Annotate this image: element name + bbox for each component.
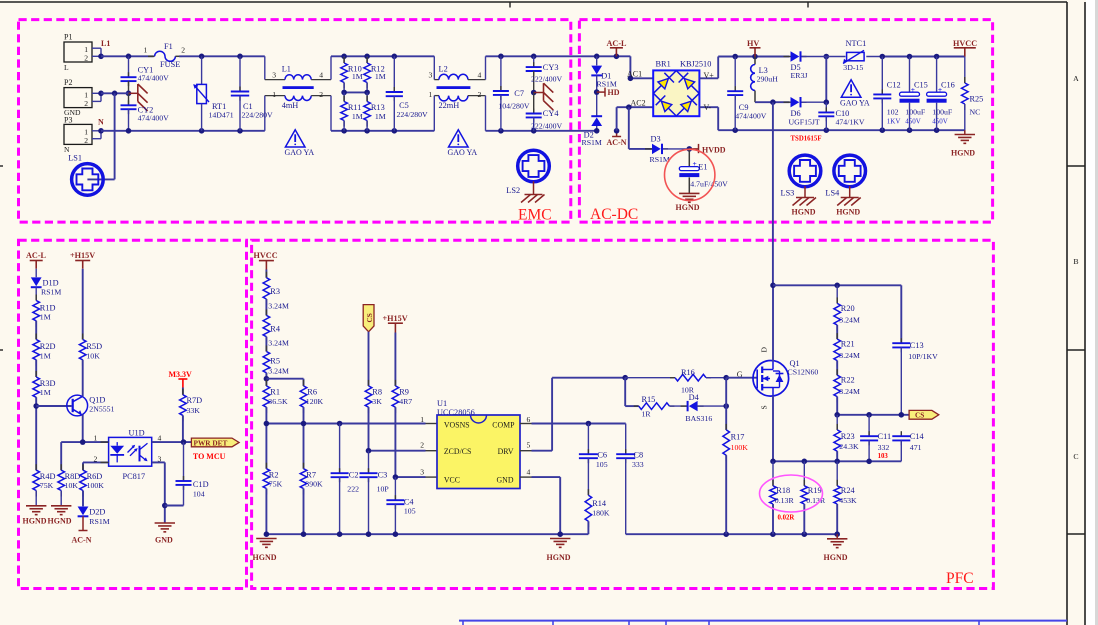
- ground HGND left pfc: [256, 538, 276, 540]
- resistor R5D: [82, 334, 84, 340]
- resistor R18: [772, 461, 774, 486]
- svg-text:HVDD: HVDD: [702, 145, 726, 154]
- svg-text:+H15V: +H15V: [70, 251, 95, 260]
- wire R3D to R4D with base tap: [35, 397, 37, 470]
- svg-text:1: 1: [94, 434, 98, 443]
- resistor R7: [303, 463, 305, 469]
- svg-text:LS3: LS3: [781, 189, 795, 198]
- svg-text:C12: C12: [887, 81, 901, 90]
- svg-text:R7D: R7D: [187, 396, 203, 405]
- svg-text:4: 4: [319, 70, 323, 79]
- junction dots top rail EMC left: [126, 54, 132, 60]
- svg-text:R1D: R1D: [40, 303, 56, 312]
- wire choke L2 to EMC exit top rail: [486, 55, 597, 57]
- svg-text:R13: R13: [371, 103, 385, 112]
- resistor R9: [394, 380, 396, 386]
- capacitor C2: [339, 424, 341, 474]
- capacitor C3: [368, 451, 370, 474]
- MOSFET Q1 CS12N60: [753, 361, 789, 397]
- diode D5: [784, 56, 791, 58]
- svg-text:105: 105: [596, 460, 608, 469]
- svg-text:C4: C4: [404, 497, 415, 506]
- node HVDD: [687, 146, 693, 152]
- svg-text:3: 3: [429, 70, 433, 79]
- svg-text:V-: V-: [704, 103, 712, 112]
- svg-text:1M: 1M: [40, 313, 51, 322]
- resistor R4: [265, 309, 267, 315]
- wire R7D to PWR DET node: [182, 415, 184, 442]
- svg-text:R8: R8: [372, 388, 382, 397]
- bridge diode top-left: [653, 71, 676, 94]
- svg-text:GAO YA: GAO YA: [285, 148, 315, 157]
- wire AC2 branch to D3: [626, 104, 632, 110]
- svg-text:3.24M: 3.24M: [839, 351, 860, 360]
- svg-text:3.24M: 3.24M: [839, 387, 860, 396]
- svg-text:120K: 120K: [306, 397, 324, 406]
- resistor R12: [366, 56, 368, 63]
- svg-text:2: 2: [181, 46, 185, 55]
- svg-text:C6: C6: [597, 450, 607, 459]
- wire bottom rail choke L1 to L2: [331, 130, 434, 132]
- svg-text:B: B: [1073, 257, 1078, 266]
- svg-text:LS1: LS1: [68, 154, 82, 163]
- svg-text:R24: R24: [841, 486, 856, 495]
- resistor R24: [836, 461, 838, 486]
- svg-text:ZCD/CS: ZCD/CS: [444, 447, 471, 456]
- node L1 junction at P1: [98, 54, 104, 60]
- ground HGND under E1: [679, 192, 699, 194]
- svg-text:1: 1: [272, 90, 276, 99]
- ZCD row wire: [369, 450, 426, 452]
- svg-text:HGND: HGND: [836, 207, 860, 216]
- svg-text:105: 105: [404, 506, 416, 515]
- svg-text:1M: 1M: [375, 112, 386, 121]
- svg-text:BAS316: BAS316: [685, 414, 712, 423]
- mounting hole LS2: [518, 150, 550, 182]
- svg-text:LS2: LS2: [506, 186, 520, 195]
- capacitor C15 electrolytic: [909, 57, 911, 93]
- zone divider y=350: [1067, 349, 1085, 351]
- title block divider x=666: [665, 621, 667, 625]
- svg-text:2: 2: [319, 90, 323, 99]
- svg-text:3K: 3K: [372, 397, 382, 406]
- svg-text:1M: 1M: [352, 72, 363, 81]
- svg-text:BR1: BR1: [656, 59, 671, 68]
- svg-text:ER3J: ER3J: [791, 71, 808, 80]
- wire P2 to CY midpoint: [101, 92, 129, 94]
- resistor R15: [634, 405, 639, 407]
- wire pin3 down: [152, 461, 165, 463]
- wire R1D to R2D: [35, 321, 37, 340]
- flag CS vertical: [363, 305, 374, 332]
- chassis earth under LS3: [804, 186, 806, 197]
- diode D2D: [78, 507, 89, 516]
- svg-text:S: S: [760, 405, 769, 409]
- svg-text:222/400V: 222/400V: [531, 121, 563, 130]
- wire pin4 row: [152, 441, 192, 443]
- drain node: [770, 283, 776, 289]
- power port HVCC pfc: [259, 260, 274, 262]
- wire R19 to ground: [803, 504, 805, 534]
- wire V+ to top rail: [699, 77, 718, 79]
- svg-text:450V: 450V: [905, 118, 921, 126]
- flag CS horizontal: [909, 410, 939, 419]
- svg-text:R22: R22: [841, 376, 855, 385]
- GND pin wire: [532, 476, 561, 478]
- svg-text:R23: R23: [841, 432, 855, 441]
- svg-text:3D-15: 3D-15: [843, 63, 863, 72]
- svg-text:224/280V: 224/280V: [397, 110, 429, 119]
- svg-text:C7: C7: [514, 89, 524, 98]
- svg-text:R18: R18: [776, 486, 790, 495]
- resistor R10: [343, 56, 345, 63]
- svg-text:PWR DET: PWR DET: [194, 438, 228, 447]
- ground HGND under R25: [964, 130, 966, 134]
- wire top rail into AC-DC: [597, 55, 631, 57]
- wire CS flag to R8: [368, 332, 370, 386]
- capacitor C7: [500, 56, 502, 91]
- chassis earth under LS2: [533, 181, 535, 194]
- power port HD: [594, 89, 600, 95]
- node R5 bottom: [265, 373, 267, 386]
- resistor R1: [265, 380, 267, 386]
- pin5 stub: [520, 450, 532, 452]
- svg-text:COMP: COMP: [492, 421, 515, 430]
- svg-text:C14: C14: [910, 432, 925, 441]
- wire R4-R5: [265, 337, 267, 352]
- svg-text:3: 3: [272, 70, 276, 79]
- chassis earth at CY3-CY4 junction: [534, 92, 544, 94]
- wire fuse to L1 choke: [179, 55, 265, 57]
- wire to R6 top: [266, 378, 303, 380]
- resistor R4D: [35, 464, 37, 470]
- svg-text:75K: 75K: [269, 480, 283, 489]
- svg-text:100uF: 100uF: [905, 108, 926, 117]
- svg-text:102: 102: [887, 108, 899, 117]
- resistor R1D: [35, 295, 37, 301]
- flag PWR DET: [191, 438, 239, 447]
- capacitor C8: [625, 424, 627, 455]
- resistor R3: [265, 272, 267, 278]
- AC-DC section box: [579, 20, 992, 223]
- warning triangle GAO YA 1: [285, 130, 305, 147]
- svg-text:M3.3V: M3.3V: [169, 370, 193, 379]
- svg-text:1M: 1M: [352, 112, 363, 121]
- svg-text:Q1D: Q1D: [89, 395, 105, 404]
- svg-text:GAO YA: GAO YA: [840, 99, 870, 108]
- svg-text:UCC28056: UCC28056: [437, 408, 475, 417]
- svg-text:V+: V+: [704, 71, 715, 80]
- svg-text:CS: CS: [915, 411, 924, 420]
- svg-text:HGND: HGND: [547, 553, 571, 562]
- capacitor C12: [881, 57, 883, 95]
- resistor R6D: [82, 464, 84, 470]
- wire R20-R21: [836, 325, 838, 339]
- svg-text:103: 103: [878, 453, 889, 460]
- resistor R20: [836, 285, 838, 303]
- power port +H15V: [75, 260, 90, 262]
- svg-text:HGND: HGND: [951, 148, 975, 157]
- svg-text:P1: P1: [64, 33, 72, 42]
- wire +H15V to R5D: [82, 269, 84, 340]
- frame zone tick top x=808: [807, 2, 809, 8]
- wire pin2 row: [83, 461, 109, 463]
- wire NTC1 to HVCC: [882, 56, 965, 58]
- P2 pin stubs: [92, 92, 101, 94]
- resistor R16: [625, 377, 675, 379]
- svg-text:C1D: C1D: [193, 480, 209, 489]
- resistor R21: [836, 333, 838, 339]
- power port AC-L: [610, 47, 623, 49]
- svg-text:PC817: PC817: [123, 472, 146, 481]
- mounting hole LS1: [72, 164, 104, 196]
- ground HGND mid pfc: [550, 538, 570, 540]
- power port HV: [750, 47, 761, 49]
- svg-text:+H15V: +H15V: [383, 314, 408, 323]
- svg-text:1M: 1M: [40, 352, 51, 361]
- svg-text:C16: C16: [941, 81, 955, 90]
- transistor Q1D 2N5551: [67, 395, 88, 416]
- common-mode choke L2: [433, 56, 435, 79]
- svg-text:AC1: AC1: [627, 70, 642, 79]
- wire R21-R22: [836, 361, 838, 376]
- svg-text:HVCC: HVCC: [254, 251, 278, 260]
- svg-text:F1: F1: [164, 42, 173, 51]
- svg-text:4: 4: [478, 70, 482, 79]
- node G: [723, 375, 729, 381]
- svg-text:GAO YA: GAO YA: [448, 148, 478, 157]
- resistor R13: [366, 92, 368, 101]
- wire R17 to ground rail: [725, 455, 727, 534]
- capacitor C4: [394, 477, 396, 500]
- wire C13 branch: [900, 285, 902, 343]
- CS row wire: [837, 414, 909, 416]
- power port M3.3V: [178, 378, 187, 380]
- node D4 cathode to gate: [723, 403, 729, 409]
- svg-text:TO MCU: TO MCU: [193, 452, 226, 461]
- node CY1-CY2 midpoint: [126, 91, 132, 97]
- wire choke L1 to R10 R12 block top: [331, 55, 434, 57]
- resistor R11: [343, 92, 345, 101]
- resistor R19: [803, 461, 805, 486]
- svg-text:2: 2: [84, 136, 88, 145]
- title block divider x=553: [552, 621, 554, 625]
- capacitor C5: [393, 56, 395, 92]
- capacitor CY2: [128, 93, 130, 105]
- svg-text:R17: R17: [731, 432, 745, 441]
- bridge diode bottom-right: [676, 93, 699, 116]
- svg-text:HGND: HGND: [676, 203, 700, 212]
- wire pin1 row: [61, 441, 108, 443]
- pin4 stub: [520, 476, 532, 478]
- title block divider x=709: [708, 621, 710, 625]
- diode D6: [784, 101, 791, 103]
- svg-text:4.7uF/450V: 4.7uF/450V: [690, 180, 728, 189]
- svg-text:TSD1615F: TSD1615F: [791, 135, 822, 142]
- connector P1: [64, 42, 92, 62]
- svg-text:222/400V: 222/400V: [531, 75, 563, 84]
- resistor R7D: [182, 389, 184, 395]
- svg-text:1: 1: [420, 415, 424, 424]
- svg-text:RS1M: RS1M: [41, 288, 61, 297]
- diode D1D: [35, 269, 37, 278]
- svg-text:L: L: [64, 63, 69, 72]
- power port HVCC: [954, 47, 976, 49]
- svg-text:22mH: 22mH: [439, 101, 460, 110]
- svg-text:C13: C13: [910, 341, 924, 350]
- resistor R5: [265, 346, 267, 352]
- svg-text:D2D: D2D: [89, 508, 105, 517]
- svg-text:3.24M: 3.24M: [268, 366, 289, 375]
- svg-text:DRV: DRV: [498, 447, 514, 456]
- svg-text:R21: R21: [841, 340, 855, 349]
- svg-text:CS12N60: CS12N60: [788, 367, 819, 376]
- red highlight circle around E1: [665, 149, 715, 200]
- bridge diode top-right: [676, 71, 699, 94]
- pin2 stub: [426, 450, 438, 452]
- wire D5 cathode node down to D6 node: [825, 57, 827, 103]
- svg-text:CS: CS: [365, 313, 374, 322]
- svg-text:NC: NC: [970, 108, 981, 117]
- svg-text:AC-L: AC-L: [26, 251, 47, 260]
- svg-text:CY4: CY4: [543, 109, 560, 118]
- wire bottom rail L2 to EMC exit: [486, 130, 598, 132]
- svg-text:R20: R20: [841, 304, 855, 313]
- wire P1 to fuse: [101, 55, 154, 57]
- svg-text:RS1M: RS1M: [89, 517, 109, 526]
- svg-text:R6: R6: [307, 388, 317, 397]
- resistor R17: [725, 424, 727, 430]
- svg-text:R11: R11: [348, 103, 362, 112]
- junction LS1 branch: [112, 91, 118, 97]
- varistor RT1: [201, 56, 203, 84]
- svg-text:36.5K: 36.5K: [268, 397, 288, 406]
- pink highlight ellipse around R18 R19: [760, 475, 823, 512]
- pin6 stub: [520, 423, 532, 425]
- diode D3: [645, 148, 652, 150]
- capacitor C6: [587, 424, 589, 455]
- svg-text:HGND: HGND: [23, 516, 47, 525]
- connector P2: [64, 88, 92, 108]
- ground rail PFC left: [266, 533, 588, 535]
- svg-text:AC-N: AC-N: [72, 536, 92, 545]
- EMC section box: [19, 20, 571, 223]
- svg-text:PFC: PFC: [946, 570, 974, 587]
- svg-text:R9: R9: [399, 388, 409, 397]
- svg-text:C11: C11: [878, 432, 892, 441]
- svg-text:R6D: R6D: [87, 472, 103, 481]
- svg-text:EMC: EMC: [518, 207, 552, 224]
- svg-text:1M: 1M: [375, 72, 386, 81]
- svg-text:KBJ2510: KBJ2510: [680, 59, 711, 68]
- svg-text:L1: L1: [101, 39, 110, 48]
- svg-text:GND: GND: [155, 536, 173, 545]
- svg-text:4: 4: [527, 467, 531, 476]
- svg-text:332: 332: [878, 443, 890, 452]
- svg-text:AC-N: AC-N: [607, 138, 627, 147]
- resistor R8: [368, 380, 370, 386]
- svg-text:R15: R15: [642, 395, 656, 404]
- svg-text:U1: U1: [437, 399, 447, 408]
- svg-text:C: C: [1073, 452, 1078, 461]
- svg-text:C2: C2: [349, 470, 359, 479]
- capacitor C10: [825, 102, 827, 112]
- wire HVDC bus down to PFC drain: [772, 102, 774, 285]
- optocoupler U1D PC817: [109, 437, 152, 466]
- power port AC-N detect: [82, 516, 84, 530]
- pin3 stub: [426, 476, 438, 478]
- svg-text:U1D: U1D: [129, 429, 145, 438]
- junction dots bottom rail EMC left: [126, 128, 132, 134]
- svg-text:0.13R: 0.13R: [775, 496, 795, 505]
- wire R22 to CS row: [836, 397, 838, 415]
- diode D2: [591, 115, 602, 117]
- svg-text:290uH: 290uH: [757, 75, 779, 84]
- white margin right of frame: [1086, 0, 1098, 625]
- inductor L3: [754, 57, 756, 65]
- capacitor C13: [900, 338, 902, 343]
- wire pin2 down to R6D: [82, 462, 84, 470]
- svg-text:HD: HD: [608, 88, 620, 97]
- source row wire: [772, 396, 774, 462]
- capacitor C14: [900, 431, 902, 436]
- thermistor NTC1: [826, 56, 845, 58]
- svg-text:1R: 1R: [642, 410, 652, 419]
- ground HGND under R8D: [60, 491, 62, 506]
- svg-text:R19: R19: [808, 486, 822, 495]
- wire down to R8D: [60, 442, 62, 470]
- svg-text:C3: C3: [378, 470, 388, 479]
- svg-text:14D471: 14D471: [209, 110, 234, 119]
- resistor R8D: [60, 464, 62, 470]
- junction dots AC-DC rails: [732, 54, 738, 60]
- resistor R6: [303, 380, 305, 386]
- P3 pin stubs: [92, 130, 101, 132]
- svg-text:C8: C8: [634, 450, 644, 459]
- zone divider y=166: [1067, 165, 1085, 167]
- frame right inner vertical: [1066, 2, 1068, 625]
- svg-text:AC-L: AC-L: [607, 39, 628, 48]
- svg-text:R4D: R4D: [40, 472, 56, 481]
- svg-text:VOSNS: VOSNS: [444, 421, 470, 430]
- bridge diode bottom-left: [653, 93, 676, 116]
- svg-text:474/400V: 474/400V: [735, 112, 767, 121]
- svg-text:P3: P3: [64, 116, 72, 125]
- svg-text:2N5551: 2N5551: [89, 405, 114, 414]
- svg-text:10K: 10K: [86, 352, 100, 361]
- power port AC-N: [616, 131, 618, 137]
- svg-text:UGF15JT: UGF15JT: [789, 118, 820, 127]
- svg-text:R8D: R8D: [65, 472, 81, 481]
- svg-text:P2: P2: [64, 78, 72, 87]
- IC U1 UCC28056: [437, 415, 520, 489]
- wire R18 to ground: [772, 504, 774, 534]
- svg-text:5: 5: [527, 441, 531, 450]
- svg-text:L1: L1: [282, 64, 291, 73]
- capacitor C1: [239, 56, 241, 91]
- chassis earth at CY junction: [129, 92, 138, 94]
- bridge rectifier BR1: [653, 70, 699, 116]
- svg-text:24.3K: 24.3K: [839, 442, 859, 451]
- wire R23 to source row: [836, 451, 838, 461]
- svg-text:HVCC: HVCC: [953, 39, 977, 48]
- svg-text:2: 2: [84, 99, 88, 108]
- capacitor C16 electrolytic: [936, 57, 938, 93]
- wire L3 to D6 row: [755, 101, 790, 103]
- wire base of Q1D: [36, 405, 71, 407]
- svg-text:180K: 180K: [592, 508, 610, 517]
- svg-text:450V: 450V: [932, 118, 948, 126]
